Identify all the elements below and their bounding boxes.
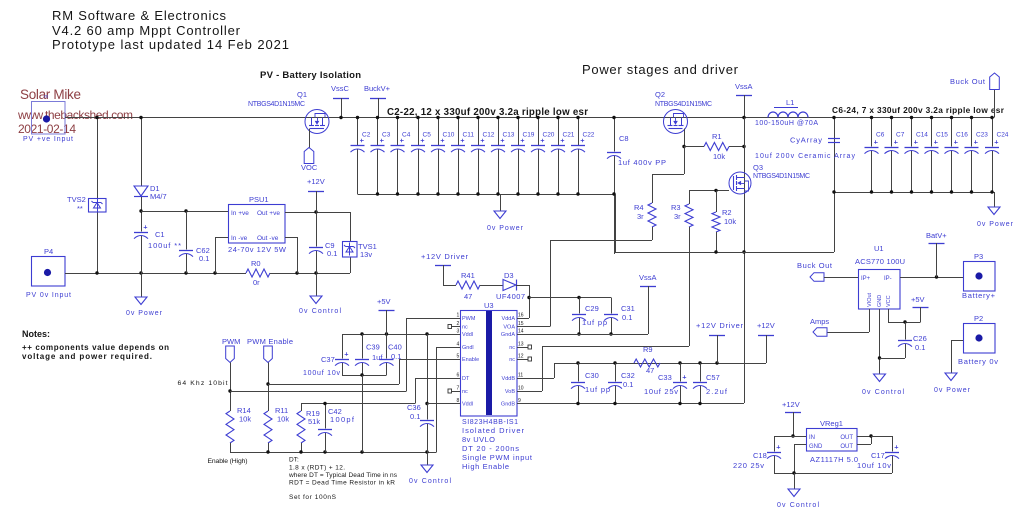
svg-text:C18: C18 xyxy=(753,451,767,460)
svg-text:C6: C6 xyxy=(876,132,885,139)
svg-text:VssC: VssC xyxy=(331,84,350,93)
svg-text:C23: C23 xyxy=(976,132,988,139)
svg-text:P3: P3 xyxy=(974,252,983,261)
svg-text:++ components value depends on: ++ components value depends on xyxy=(22,343,169,352)
svg-text:where DT = Typical Dead Time i: where DT = Typical Dead Time in ns xyxy=(288,472,398,479)
svg-text:NTBGS4D1N15MC: NTBGS4D1N15MC xyxy=(655,101,712,108)
svg-text:+12V: +12V xyxy=(782,400,800,409)
svg-text:11: 11 xyxy=(518,373,523,379)
svg-text:10k: 10k xyxy=(713,152,725,161)
svg-text:0v Power: 0v Power xyxy=(934,387,971,394)
svg-text:AZ1117H 5.0: AZ1117H 5.0 xyxy=(810,455,858,464)
svg-text:Gndl: Gndl xyxy=(462,345,474,351)
svg-text:GndA: GndA xyxy=(501,332,515,338)
svg-text:DT:: DT: xyxy=(289,457,299,464)
svg-text:Q2: Q2 xyxy=(655,90,665,99)
svg-text:R9: R9 xyxy=(643,345,653,354)
svg-text:0v Power: 0v Power xyxy=(126,310,163,317)
svg-text:2.2uf: 2.2uf xyxy=(706,387,728,396)
svg-text:PSU1: PSU1 xyxy=(249,195,269,204)
svg-text:IN: IN xyxy=(809,435,815,441)
svg-text:V4.2 60 amp Mppt Controller: V4.2 60 amp Mppt Controller xyxy=(52,23,241,38)
svg-text:C1: C1 xyxy=(155,230,165,239)
svg-text:PWM: PWM xyxy=(222,337,240,346)
svg-text:In -ve: In -ve xyxy=(231,235,248,242)
svg-text:+12V Driver: +12V Driver xyxy=(421,252,469,261)
svg-text:VIOut: VIOut xyxy=(867,292,873,307)
svg-text:Battery 0v: Battery 0v xyxy=(958,357,998,366)
svg-text:0v Power: 0v Power xyxy=(487,225,524,232)
svg-text:OUT: OUT xyxy=(840,444,853,450)
svg-text:1uf 400v PP: 1uf 400v PP xyxy=(618,158,666,167)
svg-text:ACS770 100U: ACS770 100U xyxy=(855,257,905,266)
svg-text:R4: R4 xyxy=(634,203,644,212)
svg-text:C57: C57 xyxy=(706,373,720,382)
svg-text:C20: C20 xyxy=(543,132,555,139)
svg-text:10uf 200v Ceramic Array: 10uf 200v Ceramic Array xyxy=(755,153,856,160)
svg-text:VOA: VOA xyxy=(503,325,515,331)
svg-text:NTBGS4D1N15MC: NTBGS4D1N15MC xyxy=(753,173,810,180)
svg-text:TVS2: TVS2 xyxy=(67,195,86,204)
svg-text:13v: 13v xyxy=(360,250,372,259)
svg-text:C32: C32 xyxy=(621,371,635,380)
svg-text:C37: C37 xyxy=(321,355,335,364)
svg-text:C21: C21 xyxy=(563,132,575,139)
svg-text:Out -ve: Out -ve xyxy=(257,235,279,242)
svg-text:C12: C12 xyxy=(483,132,495,139)
svg-text:Vddl: Vddl xyxy=(462,402,473,408)
svg-text:5: 5 xyxy=(457,354,460,360)
svg-text:Single PWM input: Single PWM input xyxy=(462,453,533,462)
svg-text:C4: C4 xyxy=(402,132,411,139)
svg-text:GND: GND xyxy=(809,444,823,450)
svg-text:C36: C36 xyxy=(407,403,421,412)
svg-text:voltage and power required.: voltage and power required. xyxy=(22,352,152,361)
svg-text:C15: C15 xyxy=(936,132,948,139)
svg-text:NTBGS4D1N15MC: NTBGS4D1N15MC xyxy=(248,101,305,108)
svg-text:OUT: OUT xyxy=(840,435,853,441)
svg-text:BuckV+: BuckV+ xyxy=(364,84,391,93)
svg-text:C26: C26 xyxy=(913,334,927,343)
svg-text:nc: nc xyxy=(462,325,468,331)
svg-text:0v Control: 0v Control xyxy=(777,502,819,509)
svg-text:C3: C3 xyxy=(382,132,391,139)
svg-text:Q1: Q1 xyxy=(297,90,307,99)
svg-text:R41: R41 xyxy=(461,271,475,280)
svg-text:10k: 10k xyxy=(277,415,289,424)
svg-text:VReg1: VReg1 xyxy=(820,419,843,428)
svg-text:100-150uH @70A: 100-150uH @70A xyxy=(755,120,818,127)
svg-text:C17: C17 xyxy=(871,451,885,460)
svg-text:16: 16 xyxy=(518,313,524,319)
svg-text:C24: C24 xyxy=(997,132,1009,139)
svg-text:M4/7: M4/7 xyxy=(150,192,167,201)
svg-text:C33: C33 xyxy=(658,373,672,382)
svg-text:nc: nc xyxy=(462,389,468,395)
svg-text:Battery+: Battery+ xyxy=(962,291,996,300)
svg-text:13: 13 xyxy=(518,342,524,348)
svg-text:1.8 x (RDT) + 12.: 1.8 x (RDT) + 12. xyxy=(289,465,345,472)
svg-text:C6-24, 7 x 330uf 200v 3.2a rip: C6-24, 7 x 330uf 200v 3.2a ripple low es… xyxy=(832,105,1005,115)
svg-text:100uf **: 100uf ** xyxy=(148,241,181,250)
svg-text:nc: nc xyxy=(509,345,515,351)
svg-text:High Enable: High Enable xyxy=(462,462,509,471)
svg-text:3r: 3r xyxy=(637,212,644,221)
svg-text:C5: C5 xyxy=(423,132,432,139)
svg-text:Prototype last updated 14 Feb: Prototype last updated 14 Feb 2021 xyxy=(52,37,289,52)
svg-text:C31: C31 xyxy=(621,304,635,313)
svg-text:14: 14 xyxy=(518,329,524,335)
svg-text:+12V Driver: +12V Driver xyxy=(696,321,744,330)
svg-text:DT: DT xyxy=(462,376,470,382)
svg-text:Vddl: Vddl xyxy=(462,332,473,338)
svg-text:Power stages and driver: Power stages and driver xyxy=(582,62,739,77)
svg-text:C10: C10 xyxy=(443,132,455,139)
svg-text:VddA: VddA xyxy=(502,316,516,322)
svg-text:47: 47 xyxy=(646,366,654,375)
svg-text:7: 7 xyxy=(457,386,460,392)
svg-text:VddB: VddB xyxy=(502,376,516,382)
svg-text:0v Power: 0v Power xyxy=(977,221,1014,228)
svg-text:In +ve: In +ve xyxy=(231,210,249,217)
svg-text:www.thebackshed.com: www.thebackshed.com xyxy=(17,108,133,122)
svg-text:0v Control: 0v Control xyxy=(862,389,904,396)
svg-text:C2: C2 xyxy=(362,132,371,139)
svg-text:C22: C22 xyxy=(583,132,595,139)
svg-text:220 25v: 220 25v xyxy=(733,461,764,470)
svg-text:8v UVLO: 8v UVLO xyxy=(462,435,495,444)
svg-text:U1: U1 xyxy=(874,244,884,253)
svg-text:3: 3 xyxy=(457,329,460,335)
svg-text:VssA: VssA xyxy=(639,273,657,282)
svg-text:Notes:: Notes: xyxy=(22,329,50,339)
svg-text:Enable: Enable xyxy=(462,357,479,363)
svg-text:0.1: 0.1 xyxy=(391,352,401,361)
svg-text:0.1: 0.1 xyxy=(327,249,337,258)
svg-text:DT 20 - 200ns: DT 20 - 200ns xyxy=(462,444,519,453)
svg-text:10uf 25v: 10uf 25v xyxy=(644,387,678,396)
svg-text:10k: 10k xyxy=(724,217,736,226)
svg-text:+12V: +12V xyxy=(757,321,775,330)
svg-text:C8: C8 xyxy=(619,134,629,143)
svg-text:VoB: VoB xyxy=(505,389,515,395)
svg-text:L1: L1 xyxy=(786,98,794,107)
svg-text:PWM Enable: PWM Enable xyxy=(247,337,293,346)
svg-text:0r: 0r xyxy=(253,278,260,287)
svg-text:PWM: PWM xyxy=(462,316,476,322)
svg-text:C7: C7 xyxy=(896,132,905,139)
svg-text:+12V: +12V xyxy=(307,177,325,186)
svg-text:Buck Out: Buck Out xyxy=(797,261,833,270)
svg-text:C14: C14 xyxy=(916,132,928,139)
svg-text:nc: nc xyxy=(509,357,515,363)
svg-text:R2: R2 xyxy=(722,208,732,217)
svg-text:10uf 10v: 10uf 10v xyxy=(857,461,891,470)
svg-text:3r: 3r xyxy=(674,212,681,221)
svg-text:SI823H4BB-IS1: SI823H4BB-IS1 xyxy=(462,419,518,426)
svg-text:GND: GND xyxy=(877,295,883,307)
svg-text:Buck Out: Buck Out xyxy=(950,77,986,86)
svg-text:1uf: 1uf xyxy=(372,353,383,362)
svg-text:PV +ve Input: PV +ve Input xyxy=(23,136,73,143)
svg-text:C19: C19 xyxy=(523,132,535,139)
svg-text:RM Software & Electronics: RM Software & Electronics xyxy=(52,8,227,23)
svg-text:Isolated Driver: Isolated Driver xyxy=(462,426,525,435)
svg-text:C16: C16 xyxy=(956,132,968,139)
svg-text:RDT = Dead Time Resistor in kR: RDT = Dead Time Resistor in kR xyxy=(289,480,395,487)
svg-text:BatV+: BatV+ xyxy=(926,231,947,240)
svg-text:4: 4 xyxy=(457,342,460,348)
svg-text:24-70v 12V 5W: 24-70v 12V 5W xyxy=(228,245,287,254)
svg-text:10: 10 xyxy=(518,386,524,392)
svg-text:GndB: GndB xyxy=(501,402,515,408)
svg-text:UF4007: UF4007 xyxy=(496,292,525,301)
svg-text:51k: 51k xyxy=(308,417,320,426)
svg-text:Solar Mike: Solar Mike xyxy=(20,87,81,102)
svg-text:IP-: IP- xyxy=(884,276,892,282)
svg-text:0.1: 0.1 xyxy=(915,343,925,352)
svg-text:R3: R3 xyxy=(671,203,681,212)
svg-text:C13: C13 xyxy=(503,132,515,139)
svg-text:0.1: 0.1 xyxy=(622,313,632,322)
svg-text:6: 6 xyxy=(457,373,460,379)
svg-text:U3: U3 xyxy=(484,301,494,310)
svg-text:CyArray: CyArray xyxy=(790,136,822,145)
svg-text:C29: C29 xyxy=(585,304,599,313)
svg-text:Out +ve: Out +ve xyxy=(257,210,280,217)
svg-text:R1: R1 xyxy=(712,132,722,141)
svg-text:PV 0v Input: PV 0v Input xyxy=(26,292,71,299)
svg-text:R0: R0 xyxy=(251,259,261,268)
svg-text:C39: C39 xyxy=(366,343,380,352)
svg-text:1uf pp: 1uf pp xyxy=(585,385,610,394)
svg-text:0v Control: 0v Control xyxy=(299,308,341,315)
svg-text:IP+: IP+ xyxy=(861,276,871,282)
svg-text:C11: C11 xyxy=(463,132,475,139)
svg-text:m: m xyxy=(44,94,48,100)
svg-text:Set for 100nS: Set for 100nS xyxy=(289,494,337,501)
svg-text:Enable (High): Enable (High) xyxy=(208,458,248,465)
svg-text:PV - Battery Isolation: PV - Battery Isolation xyxy=(260,70,361,81)
svg-text:Q3: Q3 xyxy=(753,163,763,172)
svg-text:+5V: +5V xyxy=(377,297,391,306)
svg-text:1uf pp: 1uf pp xyxy=(582,318,607,327)
svg-text:100uf 10v: 100uf 10v xyxy=(303,370,341,377)
svg-text:47: 47 xyxy=(464,292,472,301)
svg-text:100pf: 100pf xyxy=(330,415,355,424)
svg-text:C40: C40 xyxy=(388,343,402,352)
svg-text:P2: P2 xyxy=(974,314,983,323)
svg-text:VOC: VOC xyxy=(301,163,318,172)
svg-text:+5V: +5V xyxy=(911,295,925,304)
svg-text:D3: D3 xyxy=(504,271,514,280)
svg-text:VCC: VCC xyxy=(886,295,892,307)
svg-text:10k: 10k xyxy=(239,415,251,424)
svg-text:0v Control: 0v Control xyxy=(409,478,451,485)
svg-text:64 Khz 10bit: 64 Khz 10bit xyxy=(178,380,228,387)
svg-text:12: 12 xyxy=(518,354,524,360)
svg-text:P4: P4 xyxy=(44,247,53,256)
svg-text:**: ** xyxy=(77,204,83,213)
svg-text:Amps: Amps xyxy=(810,317,829,326)
svg-text:C30: C30 xyxy=(585,371,599,380)
svg-text:VssA: VssA xyxy=(735,82,753,91)
svg-text:1: 1 xyxy=(457,313,460,319)
svg-text:0.1: 0.1 xyxy=(623,380,633,389)
svg-text:0.1: 0.1 xyxy=(410,412,420,421)
svg-text:0.1: 0.1 xyxy=(199,254,209,263)
